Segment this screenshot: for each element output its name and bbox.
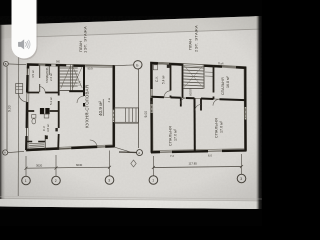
svg-text:ХОЛЛ: ХОЛЛ xyxy=(189,88,193,96)
left wall thick xyxy=(150,62,153,153)
svg-text:17.0 м²: 17.0 м² xyxy=(174,128,178,141)
svg-text:СПАЛЬНЯ: СПАЛЬНЯ xyxy=(221,77,225,95)
svg-text:3.8 м²: 3.8 м² xyxy=(46,124,50,132)
porch right of left plan xyxy=(114,108,138,122)
entrance door arc xyxy=(19,94,28,103)
right wall thick xyxy=(244,67,246,151)
door arcs xyxy=(164,91,170,97)
svg-text:1ЭТ. ЭТАЖА: 1ЭТ. ЭТАЖА xyxy=(82,26,87,53)
interior verticals top xyxy=(170,63,172,97)
bottom wall thick xyxy=(151,150,247,152)
middle vertical dim line xyxy=(138,69,140,148)
sheet margin line left xyxy=(17,36,20,196)
bathroom fixtures xyxy=(32,115,36,119)
stairs diagonals xyxy=(61,67,82,89)
svg-text:П.об: П.об xyxy=(218,62,224,66)
bath fixtures right plan xyxy=(153,65,157,70)
window zigzag right wall xyxy=(113,110,114,122)
svg-text:4.5 м²: 4.5 м² xyxy=(31,70,35,78)
outer wall thin outline xyxy=(26,64,115,152)
svg-text:6030: 6030 xyxy=(76,163,83,167)
faint fold line near bottom xyxy=(0,197,262,200)
hall side stubs xyxy=(181,98,201,111)
right plan texts xyxy=(155,25,230,158)
small divider top-left rooms xyxy=(39,65,41,93)
interior wall H1 xyxy=(27,92,59,94)
svg-text:3: 3 xyxy=(108,179,110,183)
axis circle A left bottom xyxy=(3,150,8,155)
top wall thick xyxy=(151,63,247,68)
bottom bright strip xyxy=(0,199,262,210)
door arc kitchen xyxy=(77,96,84,103)
stairs right plan xyxy=(184,67,204,86)
bottom wall thick segments xyxy=(26,146,115,150)
left vertical dim line xyxy=(6,67,8,151)
corridor wall xyxy=(152,97,246,100)
porch steps left outside xyxy=(16,84,23,94)
svg-text:В: В xyxy=(5,62,7,66)
svg-text:С.У.: С.У. xyxy=(155,76,159,82)
interior wall H3 + entry steps xyxy=(26,141,45,143)
interior wall V1 (left of stairs) xyxy=(57,65,60,150)
left wall thick segments xyxy=(26,65,28,151)
svg-text:1: 1 xyxy=(25,179,27,183)
svg-text:117.85: 117.85 xyxy=(189,162,198,166)
door arc H1 xyxy=(39,87,45,93)
svg-text:9.00: 9.00 xyxy=(144,111,148,118)
svg-text:4 м: 4 м xyxy=(107,98,111,103)
svg-text:КУХНЯ-СТОЛОВАЯ: КУХНЯ-СТОЛОВАЯ xyxy=(85,85,90,128)
window marks top xyxy=(39,65,113,67)
left dark edge xyxy=(0,24,5,199)
svg-text:7.2: 7.2 xyxy=(170,154,174,158)
svg-text:А: А xyxy=(138,151,140,155)
left plan bottom dims xyxy=(26,167,110,168)
svg-text:90.9: 90.9 xyxy=(88,67,94,71)
svg-text:5.4 м²: 5.4 м² xyxy=(162,75,166,84)
right dark edge xyxy=(256,16,262,209)
svg-text:9.00: 9.00 xyxy=(8,105,12,112)
svg-text:6.0: 6.0 xyxy=(208,154,212,158)
svg-text:3020: 3020 xyxy=(36,164,43,168)
right wall thick segments xyxy=(113,66,115,147)
table band above paper edge xyxy=(0,16,262,39)
svg-text:2.70: 2.70 xyxy=(78,80,82,86)
dim texts xyxy=(4,62,242,183)
window zigzags xyxy=(151,101,152,113)
vignette xyxy=(0,16,262,209)
svg-text:5.2 м²: 5.2 м² xyxy=(49,97,53,105)
interior wall H2 xyxy=(27,110,59,112)
svg-text:СПАЛЬНЯ: СПАЛЬНЯ xyxy=(215,118,219,138)
svg-text:СПАЛЬНЯ: СПАЛЬНЯ xyxy=(169,126,173,146)
svg-text:40.9 м²: 40.9 м² xyxy=(98,101,103,116)
svg-text:16.8 м²: 16.8 м² xyxy=(226,76,230,88)
stairs stringer xyxy=(71,65,73,91)
svg-text:17.6 м²: 17.6 м² xyxy=(220,120,224,133)
svg-text:900: 900 xyxy=(56,61,61,64)
diamond between plans xyxy=(131,160,136,167)
black shaft xyxy=(40,108,44,114)
outer thin outline xyxy=(151,62,247,153)
svg-text:1: 1 xyxy=(152,179,154,183)
svg-text:3: 3 xyxy=(240,177,242,181)
svg-text:ПЛАН: ПЛАН xyxy=(188,39,193,50)
right plan bottom dims xyxy=(153,167,241,168)
left plan texts xyxy=(31,26,111,132)
axis circle B left top xyxy=(4,61,9,66)
svg-text:А: А xyxy=(4,151,6,155)
speaker icon xyxy=(18,39,30,49)
paper grain xyxy=(0,16,262,209)
center vertical wall bottom xyxy=(194,99,196,152)
interior wall V2 (right of stairs / kitchen) xyxy=(83,65,85,107)
stairs bottom edge xyxy=(60,90,83,92)
paper top edge line xyxy=(15,29,262,38)
background black xyxy=(0,0,262,226)
svg-text:2: 2 xyxy=(55,179,57,183)
svg-text:2ЭТ. ЭТАЖА: 2ЭТ. ЭТАЖА xyxy=(193,25,198,52)
paper sheet xyxy=(0,16,262,209)
top wall thick segments xyxy=(27,65,115,67)
stairs treads xyxy=(60,68,78,86)
svg-text:2.6 м²: 2.6 м² xyxy=(49,73,53,81)
